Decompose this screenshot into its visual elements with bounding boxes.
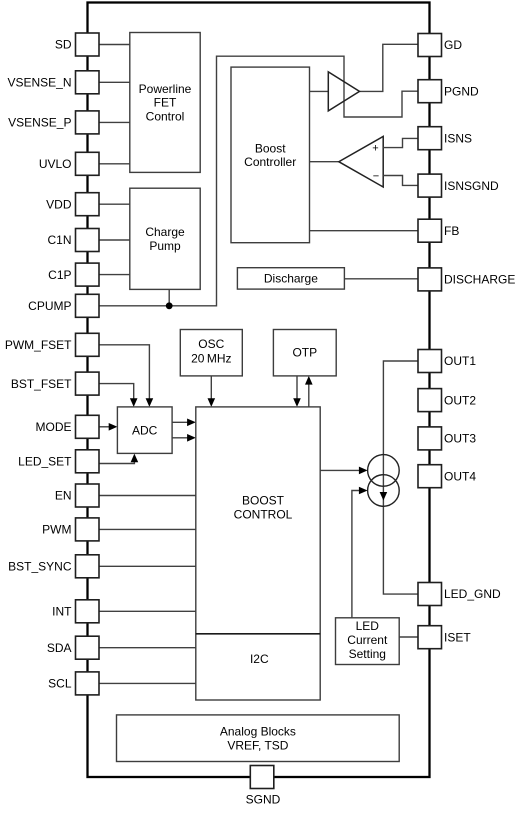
svg-text:SGND: SGND bbox=[246, 793, 281, 807]
wire PWM_FSET to ADC bbox=[99, 345, 149, 401]
wire SCL to I2C bbox=[99, 682, 196, 684]
svg-text:C1P: C1P bbox=[48, 268, 71, 282]
svg-text:OSC: OSC bbox=[198, 337, 224, 351]
block Boost Controller bbox=[231, 67, 310, 243]
pin C1P bbox=[48, 263, 99, 286]
svg-text:OUT1: OUT1 bbox=[444, 354, 476, 368]
svg-text:CPUMP: CPUMP bbox=[28, 299, 71, 313]
pin VSENSE_P bbox=[8, 111, 99, 134]
svg-text:Setting: Setting bbox=[349, 647, 386, 661]
wire LED Current Setting to ISET bbox=[399, 636, 418, 638]
divider I2C section bbox=[196, 633, 320, 635]
pin EN bbox=[55, 484, 99, 507]
svg-text:OUT4: OUT4 bbox=[444, 469, 476, 483]
junction CPUMP net bbox=[166, 302, 173, 309]
pin UVLO bbox=[39, 152, 99, 175]
wire LED Current Setting to current source bbox=[352, 491, 361, 618]
current source circle lower bbox=[368, 475, 400, 507]
svg-text:ISNSGND: ISNSGND bbox=[444, 179, 499, 193]
wire VSENSE_N to Powerline FET Control bbox=[99, 81, 130, 83]
svg-text:Controller: Controller bbox=[244, 155, 296, 169]
svg-text:Boost: Boost bbox=[255, 141, 286, 155]
svg-text:VDD: VDD bbox=[46, 197, 72, 211]
pin PWM_FSET bbox=[5, 333, 99, 356]
svg-text:Charge: Charge bbox=[145, 225, 185, 239]
svg-text:VREF, TSD: VREF, TSD bbox=[227, 739, 288, 753]
pin SD bbox=[55, 33, 99, 56]
pin OUT3 bbox=[418, 427, 476, 450]
svg-text:BST_FSET: BST_FSET bbox=[11, 377, 72, 391]
pin SCL bbox=[48, 672, 99, 695]
block ADC bbox=[117, 407, 172, 454]
pin GD bbox=[418, 34, 462, 57]
block Analog Blocks VREF TSD bbox=[117, 715, 400, 762]
svg-text:Powerline: Powerline bbox=[139, 82, 192, 96]
svg-text:FET: FET bbox=[154, 96, 177, 110]
pin INT bbox=[52, 600, 99, 623]
svg-text:Control: Control bbox=[146, 110, 185, 124]
current source arrow bbox=[380, 492, 388, 501]
svg-text:ISET: ISET bbox=[444, 630, 471, 644]
pin DISCHARGE bbox=[418, 268, 515, 291]
svg-text:EN: EN bbox=[55, 489, 72, 503]
svg-text:SD: SD bbox=[55, 38, 72, 52]
svg-text:Current: Current bbox=[347, 633, 388, 647]
wire comparator minus to ISNSGND bbox=[383, 176, 418, 186]
wire OSC to BOOST CONTROL bbox=[210, 376, 212, 401]
wire ADC to BOOST CONTROL upper bbox=[172, 421, 189, 423]
pin C1N bbox=[47, 229, 99, 252]
svg-text:+: + bbox=[372, 142, 378, 154]
svg-text:PGND: PGND bbox=[444, 84, 479, 98]
pin OUT4 bbox=[418, 465, 476, 488]
svg-text:DISCHARGE: DISCHARGE bbox=[444, 273, 515, 287]
pin OUT1 bbox=[418, 350, 476, 373]
svg-text:MODE: MODE bbox=[36, 420, 72, 434]
svg-text:LED: LED bbox=[356, 619, 380, 633]
svg-text:SDA: SDA bbox=[47, 641, 72, 655]
pin LED_SET bbox=[18, 450, 99, 473]
block OSC 20 MHz bbox=[180, 330, 242, 376]
block Powerline FET Control bbox=[130, 33, 200, 173]
pin SDA bbox=[47, 636, 99, 659]
svg-text:INT: INT bbox=[52, 605, 72, 619]
current source circle upper bbox=[368, 455, 400, 487]
wire UVLO to Powerline FET Control bbox=[99, 163, 130, 165]
pin OUT2 bbox=[418, 389, 476, 412]
wire Boost Controller to comparator input bbox=[310, 161, 339, 163]
wire INT to BOOST CONTROL bbox=[99, 610, 196, 612]
svg-text:BST_SYNC: BST_SYNC bbox=[8, 560, 72, 574]
wire VSENSE_P to Powerline FET Control bbox=[99, 121, 130, 123]
wire BST_SYNC to BOOST CONTROL bbox=[99, 565, 196, 567]
wire CPUMP net to PGND bbox=[99, 56, 418, 306]
svg-text:C1N: C1N bbox=[47, 233, 71, 247]
wire Boost Controller to FB bbox=[310, 230, 419, 232]
wire MODE to ADC bbox=[99, 426, 112, 428]
pin VDD bbox=[46, 193, 99, 216]
block BOOST CONTROL bbox=[196, 407, 320, 700]
svg-text:Pump: Pump bbox=[149, 239, 181, 253]
comparator U2 current sense bbox=[339, 136, 383, 187]
wire SDA to I2C bbox=[99, 647, 196, 649]
wire comparator plus to ISNS bbox=[383, 138, 418, 147]
block OTP bbox=[273, 330, 336, 376]
wire Discharge block to DISCHARGE bbox=[344, 278, 418, 280]
wire C1P to Charge Pump bbox=[99, 274, 130, 276]
svg-text:OUT3: OUT3 bbox=[444, 432, 476, 446]
svg-text:ADC: ADC bbox=[132, 423, 158, 437]
wire EN to BOOST CONTROL bbox=[99, 495, 196, 497]
wire ADC to BOOST CONTROL lower bbox=[172, 437, 189, 439]
svg-text:UVLO: UVLO bbox=[39, 157, 72, 171]
wire C1N to Charge Pump bbox=[99, 239, 130, 241]
block LED Current Setting bbox=[336, 618, 400, 665]
wire Charge Pump output stub bbox=[168, 289, 170, 305]
svg-text:GD: GD bbox=[444, 38, 462, 52]
pin CPUMP bbox=[28, 294, 99, 317]
svg-text:LED_SET: LED_SET bbox=[18, 455, 72, 469]
wire SD to Powerline FET Control bbox=[99, 44, 130, 46]
svg-text:OUT2: OUT2 bbox=[444, 393, 476, 407]
pin ISNS bbox=[418, 127, 472, 150]
svg-text:I2C: I2C bbox=[250, 652, 269, 666]
wire Boost Controller to buffer input bbox=[310, 90, 329, 92]
svg-text:FB: FB bbox=[444, 224, 459, 238]
svg-text:VSENSE_N: VSENSE_N bbox=[7, 76, 71, 90]
wire OUT1 to current source to LED_GND bbox=[383, 361, 418, 594]
chip boundary bbox=[88, 3, 430, 778]
wire LED_SET to ADC bbox=[99, 459, 134, 464]
svg-text:LED_GND: LED_GND bbox=[444, 587, 501, 601]
svg-text:VSENSE_P: VSENSE_P bbox=[8, 116, 71, 130]
block Charge Pump bbox=[130, 188, 200, 289]
svg-text:20 MHz: 20 MHz bbox=[191, 352, 231, 366]
wire buffer output to GD bbox=[360, 44, 419, 91]
wire BST_FSET to ADC bbox=[99, 384, 134, 401]
svg-text:CONTROL: CONTROL bbox=[234, 507, 293, 521]
pin VSENSE_N bbox=[7, 71, 99, 94]
pin BST_SYNC bbox=[8, 555, 99, 578]
block Discharge bbox=[237, 268, 344, 289]
svg-text:ISNS: ISNS bbox=[444, 131, 472, 145]
svg-text:Discharge: Discharge bbox=[264, 272, 318, 286]
pin SGND bbox=[246, 766, 281, 807]
svg-text:PWM: PWM bbox=[42, 523, 71, 537]
svg-text:−: − bbox=[373, 170, 379, 182]
pin ISNSGND bbox=[418, 174, 499, 197]
pin PWM bbox=[42, 518, 99, 541]
svg-text:OTP: OTP bbox=[292, 345, 317, 359]
wire PWM to BOOST CONTROL bbox=[99, 528, 196, 530]
svg-text:SCL: SCL bbox=[48, 677, 72, 691]
pin PGND bbox=[418, 80, 479, 103]
pin FB bbox=[418, 219, 459, 242]
buffer U1 gate driver bbox=[328, 72, 359, 111]
svg-text:PWM_FSET: PWM_FSET bbox=[5, 338, 72, 352]
wire BOOST CONTROL to current source bbox=[320, 469, 361, 471]
wire OTP to BOOST CONTROL down bbox=[296, 376, 298, 401]
pin BST_FSET bbox=[11, 372, 99, 395]
pin MODE bbox=[36, 415, 100, 438]
svg-text:Analog Blocks: Analog Blocks bbox=[220, 725, 296, 739]
wire VDD to Charge Pump bbox=[99, 203, 130, 205]
pin ISET bbox=[418, 626, 471, 649]
pin LED_GND bbox=[418, 583, 501, 606]
wire BOOST CONTROL to OTP up bbox=[308, 382, 310, 407]
svg-text:BOOST: BOOST bbox=[242, 494, 285, 508]
